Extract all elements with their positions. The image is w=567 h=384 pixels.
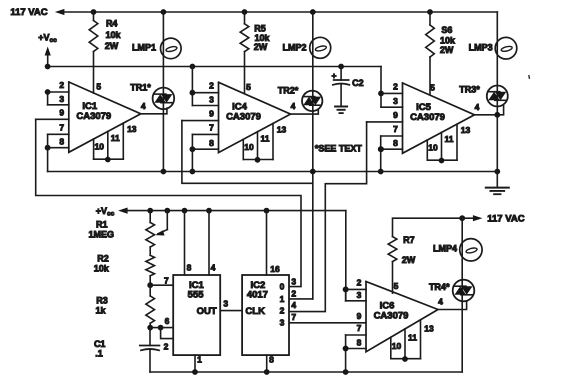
svg-text:11: 11 bbox=[445, 134, 454, 144]
svg-text:10k: 10k bbox=[105, 30, 121, 40]
svg-text:2: 2 bbox=[59, 80, 64, 90]
svg-text:R7: R7 bbox=[403, 235, 415, 245]
svg-text:1MEG: 1MEG bbox=[89, 229, 115, 239]
svg-text:R4: R4 bbox=[106, 19, 118, 29]
svg-text:S6: S6 bbox=[441, 25, 452, 35]
svg-text:3: 3 bbox=[357, 290, 362, 300]
svg-text:13: 13 bbox=[127, 124, 137, 134]
svg-text:R3: R3 bbox=[96, 296, 108, 306]
svg-text:2: 2 bbox=[164, 341, 169, 351]
svg-text:4: 4 bbox=[475, 102, 480, 112]
svg-text:LMP4: LMP4 bbox=[433, 244, 457, 254]
svg-text:CA3079: CA3079 bbox=[226, 111, 261, 122]
svg-text:11: 11 bbox=[261, 134, 270, 144]
svg-text:5: 5 bbox=[246, 82, 251, 92]
svg-text:4017: 4017 bbox=[247, 290, 268, 301]
svg-text:9: 9 bbox=[59, 107, 64, 117]
svg-text:0: 0 bbox=[280, 282, 285, 292]
svg-text:9: 9 bbox=[393, 110, 398, 120]
svg-text:7: 7 bbox=[393, 124, 398, 134]
svg-text:10: 10 bbox=[428, 143, 438, 153]
svg-text:117 VAC: 117 VAC bbox=[10, 7, 47, 18]
svg-text:R2: R2 bbox=[97, 254, 109, 264]
svg-text:8: 8 bbox=[59, 137, 64, 147]
svg-text:TR4*: TR4* bbox=[429, 282, 450, 292]
svg-text:5: 5 bbox=[430, 83, 435, 93]
svg-text:2W: 2W bbox=[440, 45, 454, 55]
svg-text:CA3079: CA3079 bbox=[374, 311, 409, 322]
svg-text:8: 8 bbox=[269, 354, 274, 364]
svg-text:CA3079: CA3079 bbox=[410, 112, 445, 123]
svg-text:2: 2 bbox=[393, 81, 398, 91]
svg-text:TR1*: TR1* bbox=[130, 83, 151, 93]
svg-text:8: 8 bbox=[187, 262, 192, 272]
svg-text:2W: 2W bbox=[254, 42, 268, 52]
svg-text:R1: R1 bbox=[96, 220, 108, 230]
svg-text:1: 1 bbox=[197, 354, 202, 364]
svg-text:13: 13 bbox=[424, 324, 434, 334]
svg-text:3: 3 bbox=[280, 318, 285, 328]
svg-text:3: 3 bbox=[209, 95, 214, 105]
svg-text:13: 13 bbox=[461, 125, 471, 135]
svg-text:LMP3: LMP3 bbox=[469, 43, 493, 53]
svg-text:3: 3 bbox=[291, 277, 296, 287]
svg-text:11: 11 bbox=[408, 333, 417, 343]
svg-text:C2: C2 bbox=[352, 78, 364, 88]
svg-text:10k: 10k bbox=[94, 263, 110, 273]
svg-text:2W: 2W bbox=[402, 255, 416, 265]
svg-text:LMP2: LMP2 bbox=[282, 43, 306, 53]
svg-text:.1: .1 bbox=[95, 349, 103, 359]
svg-text:6: 6 bbox=[165, 316, 170, 326]
svg-text:4: 4 bbox=[141, 101, 146, 111]
svg-text:9: 9 bbox=[357, 311, 362, 321]
svg-text:11: 11 bbox=[111, 133, 120, 143]
svg-text:5: 5 bbox=[96, 82, 101, 92]
svg-text:117 VAC: 117 VAC bbox=[487, 214, 524, 225]
svg-text:2W: 2W bbox=[105, 41, 119, 51]
svg-text:2: 2 bbox=[357, 277, 362, 287]
svg-text:8: 8 bbox=[357, 338, 362, 348]
svg-text:LMP1: LMP1 bbox=[132, 43, 156, 53]
svg-text:4: 4 bbox=[211, 262, 216, 272]
svg-text:4: 4 bbox=[291, 101, 296, 111]
svg-text:1k: 1k bbox=[95, 305, 106, 315]
svg-text:555: 555 bbox=[188, 290, 205, 301]
svg-text:7: 7 bbox=[291, 312, 296, 322]
svg-text:3: 3 bbox=[393, 96, 398, 106]
svg-text:2: 2 bbox=[280, 306, 285, 316]
svg-text:CLK: CLK bbox=[245, 306, 265, 317]
svg-text:1: 1 bbox=[280, 294, 285, 304]
svg-text:5: 5 bbox=[394, 281, 399, 291]
svg-text:9: 9 bbox=[209, 109, 214, 119]
svg-text:3: 3 bbox=[59, 94, 64, 104]
svg-text:13: 13 bbox=[277, 125, 287, 135]
svg-text:4: 4 bbox=[438, 297, 443, 307]
svg-text:2: 2 bbox=[291, 289, 296, 299]
svg-text:10: 10 bbox=[95, 142, 105, 152]
svg-text:3: 3 bbox=[223, 298, 228, 308]
svg-text:7: 7 bbox=[209, 122, 214, 132]
svg-text:CA3079: CA3079 bbox=[76, 111, 111, 122]
svg-text:TR2*: TR2* bbox=[278, 86, 299, 96]
svg-text:8: 8 bbox=[393, 138, 398, 148]
svg-text:+: + bbox=[332, 70, 337, 80]
svg-text:2: 2 bbox=[209, 81, 214, 91]
svg-text:R5: R5 bbox=[254, 24, 266, 34]
svg-text:OUT: OUT bbox=[197, 306, 217, 317]
svg-text:4: 4 bbox=[291, 300, 296, 310]
svg-text:10k: 10k bbox=[440, 35, 456, 45]
svg-text:10: 10 bbox=[392, 341, 402, 351]
svg-text:10: 10 bbox=[244, 142, 254, 152]
svg-text:7: 7 bbox=[357, 323, 362, 333]
svg-text:7: 7 bbox=[164, 276, 169, 286]
svg-text:16: 16 bbox=[270, 264, 280, 274]
svg-text:*SEE TEXT: *SEE TEXT bbox=[315, 144, 363, 154]
svg-text:TR3*: TR3* bbox=[459, 84, 480, 94]
svg-text:8: 8 bbox=[209, 138, 214, 148]
svg-text:7: 7 bbox=[59, 122, 64, 132]
